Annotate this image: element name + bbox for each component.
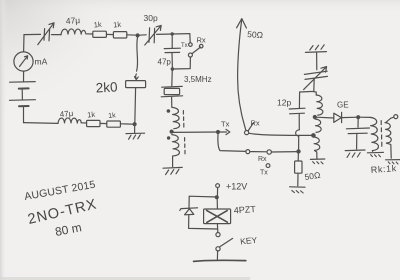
node 50ohm junction xyxy=(297,150,300,153)
node T1 tap xyxy=(170,130,173,133)
svg-text:1k: 1k xyxy=(113,20,122,30)
battery B1 xyxy=(10,71,36,122)
diode D1 GE xyxy=(334,112,342,122)
S3 contact a xyxy=(246,150,250,154)
wire bottom-left horizontal xyxy=(24,122,59,125)
svg-text:1k: 1k xyxy=(108,112,117,120)
node detector out xyxy=(357,116,360,119)
resistor R2 xyxy=(113,32,126,38)
S3 blade xyxy=(250,151,267,153)
transformer T3 secondary xyxy=(385,123,391,143)
wire node to T3 xyxy=(360,116,370,118)
wire tank top corner to T2 xyxy=(314,92,316,95)
wire hop over row1 xyxy=(296,130,300,136)
S1 common wire down-left xyxy=(173,57,191,69)
ground G7 xyxy=(386,160,400,164)
relay coil K1 xyxy=(204,209,231,224)
variable capacitor C2 30p xyxy=(145,25,161,45)
wire node to K1 top xyxy=(216,198,218,208)
transformer T3 primary xyxy=(370,117,378,150)
svg-text:12p: 12p xyxy=(277,98,291,108)
diode D2 xyxy=(180,208,198,215)
wire J2 to ground xyxy=(134,124,136,132)
ground G2 xyxy=(126,133,145,139)
wire R3 to R4 xyxy=(100,122,107,124)
S3 contact b xyxy=(267,150,271,154)
svg-text:47p: 47p xyxy=(158,58,172,67)
wire +12V down xyxy=(216,188,218,197)
T1 phase dot lower xyxy=(168,137,170,139)
relay terminal xyxy=(216,233,220,237)
wire R5 to ground xyxy=(297,173,299,185)
T1 phase dot upper xyxy=(167,110,169,112)
transformer T2 winding lower xyxy=(314,137,320,150)
T1 core dashes upper xyxy=(182,111,184,127)
KEY contact xyxy=(216,247,220,251)
svg-text:47μ: 47μ xyxy=(65,15,80,26)
wire P1 to J2 xyxy=(134,88,137,124)
svg-text:50Ω: 50Ω xyxy=(247,29,264,40)
wire meter top to corner xyxy=(23,35,25,52)
wire R1 to R2 xyxy=(106,33,113,35)
resistor R4 xyxy=(107,121,121,127)
capacitor C3 47p xyxy=(164,34,180,69)
ground G8 top of tank xyxy=(305,45,326,53)
svg-text:Rx: Rx xyxy=(251,119,260,128)
Tx arrow xyxy=(219,129,229,134)
svg-text:mA: mA xyxy=(35,57,48,67)
S2 common contact xyxy=(245,131,249,135)
svg-text:1k: 1k xyxy=(93,20,102,30)
wire junction down to row2 xyxy=(218,134,246,152)
antenna wire curve xyxy=(238,19,246,131)
wire T2 tap1 to diode xyxy=(316,116,333,119)
wire C1 to L1 xyxy=(52,34,62,36)
svg-text:Tx: Tx xyxy=(181,43,188,49)
wire D1 to node xyxy=(342,116,358,118)
wire ground to C4 xyxy=(316,53,318,70)
wire C5 down with hop xyxy=(298,114,300,130)
bottom rail line xyxy=(194,260,246,261)
KEY blade xyxy=(220,238,233,246)
potentiometer wiper wire from J1 xyxy=(134,37,138,80)
KEY wire down xyxy=(216,251,218,260)
ground G6 xyxy=(367,152,383,156)
wire junction to crystal xyxy=(171,69,174,86)
svg-text:4PZT: 4PZT xyxy=(233,204,256,216)
svg-text:47μ: 47μ xyxy=(59,109,74,119)
T3 core dashes xyxy=(380,121,383,147)
T3 primary to ground xyxy=(371,150,373,153)
node relay top xyxy=(215,196,218,199)
svg-text:Rk:1k: Rk:1k xyxy=(370,163,397,175)
node Tx/Rx junction xyxy=(217,131,220,134)
svg-text:1k: 1k xyxy=(87,110,96,120)
S3 Tx contact xyxy=(266,164,270,168)
svg-text:3,5MHz: 3,5MHz xyxy=(184,75,212,84)
svg-text:+12V: +12V xyxy=(226,182,247,192)
ground G1 xyxy=(163,167,182,174)
meter M1 xyxy=(14,52,33,71)
wire K1 bottom xyxy=(216,224,218,232)
node T2 tap1 xyxy=(313,116,316,119)
ground G4 xyxy=(310,159,324,164)
variable capacitor C1 xyxy=(38,23,54,45)
svg-text:30p: 30p xyxy=(144,13,158,23)
node C3 bottom junction xyxy=(171,68,173,70)
wire S2 to tank xyxy=(249,133,312,135)
wire D2 down and right xyxy=(189,215,217,229)
handwritten notes xyxy=(23,179,98,239)
wire top-left horizontal xyxy=(24,33,41,35)
wire L1 to R1 xyxy=(86,33,93,35)
antenna arrowhead xyxy=(237,19,247,28)
S1 common + blade xyxy=(188,53,192,57)
resistor R5 50ohm xyxy=(295,161,302,173)
svg-text:2k0: 2k0 xyxy=(95,79,118,95)
wire C2 to switch corner xyxy=(157,33,190,36)
transformer T2 winding upper xyxy=(316,95,323,115)
wire J1 to C2 xyxy=(139,34,146,36)
wire node left xyxy=(189,196,217,207)
ground G5 xyxy=(345,150,365,157)
S1 Tx contact xyxy=(189,43,193,47)
inductor L2 47u xyxy=(58,118,81,123)
svg-text:Tx: Tx xyxy=(260,170,268,177)
transformer T1 lower winding xyxy=(172,135,180,156)
resistor R3 xyxy=(87,120,100,126)
node 47p tap xyxy=(171,33,173,35)
node J2 xyxy=(133,123,136,126)
wire R4 to junction J2 xyxy=(121,123,134,125)
T1 core dashes lower xyxy=(184,138,186,154)
variable capacitor C4 xyxy=(304,67,328,90)
capacitor C6 xyxy=(346,117,369,149)
wire R2 to junction xyxy=(127,34,138,36)
svg-text:Rx: Rx xyxy=(258,156,267,163)
wire L2 to R3 xyxy=(81,122,86,124)
transformer T2 winding middle xyxy=(315,119,321,132)
wire crystal to T1 xyxy=(171,97,173,107)
wire S3 to 50ohm node xyxy=(271,151,298,153)
svg-text:GE: GE xyxy=(337,101,349,110)
+12V terminal xyxy=(216,184,220,188)
wire C4 down to corner xyxy=(299,78,314,107)
ground G3 xyxy=(290,187,305,193)
potentiometer P1 body xyxy=(126,81,146,88)
S1 Rx contact xyxy=(199,44,203,48)
switch S1 wire down xyxy=(189,34,191,43)
terminal phones xyxy=(394,115,398,119)
inductor L1 47u xyxy=(61,29,86,35)
wire T2 to ground xyxy=(315,151,317,159)
transformer T1 upper winding xyxy=(172,107,180,128)
resistor R1 xyxy=(93,31,107,37)
wire node to R5 xyxy=(297,152,299,161)
T3 secondary bottom to ground xyxy=(386,143,391,158)
svg-text:KEY: KEY xyxy=(240,235,258,247)
wire T1 to ground xyxy=(172,156,174,167)
node T2 tap2 xyxy=(312,134,315,137)
S2 blade to Rx xyxy=(248,123,254,131)
T3 secondary top to terminal xyxy=(386,117,394,122)
wire T1 tap to Tx/Rx node xyxy=(173,131,218,133)
wire hop to node xyxy=(298,136,300,150)
svg-text:Rx: Rx xyxy=(197,36,206,45)
svg-text:Tx: Tx xyxy=(221,120,230,129)
capacitor C5 12p xyxy=(289,108,305,114)
crystal X1 xyxy=(161,86,182,96)
node J1 xyxy=(136,34,139,37)
